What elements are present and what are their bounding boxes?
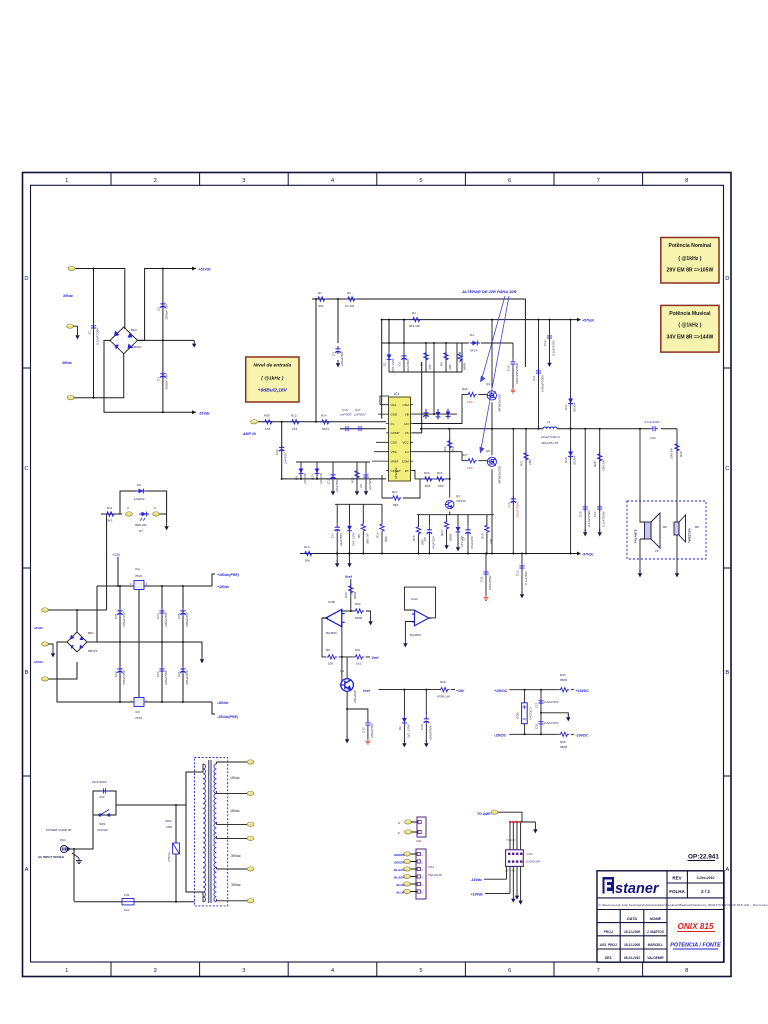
svg-text:6R8: 6R8 [384, 536, 388, 542]
svg-text:REV: REV [672, 876, 681, 881]
svg-text:18VAC: 18VAC [34, 626, 44, 630]
svg-text:C16: C16 [342, 408, 348, 412]
capacitor C9 [465, 527, 470, 535]
svg-text:560: 560 [393, 503, 398, 507]
wire bottom rail [74, 901, 195, 903]
svg-text:56K: 56K [305, 559, 310, 563]
svg-text:39Vac: 39Vac [62, 361, 72, 365]
svg-text:SK304: SK304 [573, 456, 577, 465]
capacitor C34 [650, 426, 658, 431]
svg-text:+51Vdc: +51Vdc [199, 268, 211, 272]
transformer core [209, 760, 211, 903]
svg-text:+18Vdc(PRE): +18Vdc(PRE) [217, 573, 240, 577]
svg-text:C9: C9 [462, 537, 466, 541]
svg-text:BA4560: BA4560 [410, 633, 421, 637]
svg-text:-18Vdc: -18Vdc [471, 878, 483, 882]
wire LED row [101, 491, 167, 523]
resistor R31 [339, 656, 371, 658]
svg-text:C15: C15 [327, 478, 331, 484]
svg-text:7 8 9 10: 7 8 9 10 [506, 839, 516, 842]
annotation arrow to R26 [482, 296, 505, 378]
wire terminal hook [73, 326, 78, 332]
logo staner [603, 877, 660, 897]
terminal 18VAC center [42, 642, 49, 646]
svg-text:440-105-170: 440-105-170 [541, 441, 558, 445]
svg-text:100uF/25V: 100uF/25V [185, 669, 189, 685]
svg-text:3-Dec-2010: 3-Dec-2010 [697, 876, 715, 880]
svg-text:-51Vdc: -51Vdc [199, 411, 211, 415]
resistor R35 [559, 732, 570, 736]
svg-text:R15: R15 [412, 535, 416, 541]
wire +18Vdc [485, 892, 510, 894]
svg-text:8: 8 [685, 178, 688, 184]
svg-text:RBT15: RBT15 [88, 649, 98, 653]
svg-text:R3: R3 [347, 291, 351, 295]
svg-text:DES.: DES. [605, 956, 613, 960]
svg-text:1nF/63V: 1nF/63V [284, 452, 288, 464]
op-amp IC4A [412, 610, 432, 626]
wire D14 D15 column [570, 320, 572, 554]
svg-text:VB: VB [405, 412, 409, 416]
terminal black1 [404, 867, 411, 871]
svg-text:CN3: CN3 [527, 852, 533, 856]
svg-text:1K8: 1K8 [265, 427, 271, 431]
wire cap columns [120, 586, 183, 702]
svg-text:0.68uF/250V: 0.68uF/250V [540, 374, 544, 392]
svg-text:R15: R15 [351, 477, 355, 483]
svg-text:D1: D1 [383, 362, 387, 366]
terminal 39Vac top [68, 266, 75, 270]
terminal bottom [67, 396, 74, 400]
terminal 18VAC a [42, 608, 49, 612]
wire top R1 R3 run [312, 299, 525, 422]
wire primary pins [195, 764, 204, 902]
svg-text:5: 5 [419, 178, 422, 184]
svg-text:R21: R21 [520, 460, 524, 466]
svg-text:0.22uF/50V: 0.22uF/50V [544, 721, 560, 725]
svg-text:10R: 10R [448, 364, 452, 370]
svg-text:Potência Musical: Potência Musical [669, 311, 711, 317]
svg-text:B: B [725, 670, 729, 676]
wire +57V rail A [382, 320, 577, 419]
svg-text:-57Vdc: -57Vdc [582, 553, 594, 557]
wire C1 vertical [93, 269, 95, 398]
svg-text:C33: C33 [362, 727, 366, 733]
svg-text:100nF/50V: 100nF/50V [370, 722, 374, 738]
ground R32 [368, 618, 372, 625]
plug PC1 [60, 845, 70, 852]
svg-text:R18: R18 [480, 533, 484, 539]
svg-text:D7: D7 [139, 529, 143, 533]
svg-text:0.1uF/250V: 0.1uF/250V [551, 339, 555, 356]
svg-text:1: 1 [65, 968, 68, 974]
transformer T1 dashed box [195, 758, 228, 906]
note box Potencia Nominal [661, 238, 719, 284]
svg-text:( @1kHz ): ( @1kHz ) [261, 376, 284, 382]
svg-text:1nF/50V: 1nF/50V [354, 413, 366, 417]
svg-text:10K: 10K [328, 662, 333, 666]
capacitor C32 [281, 422, 283, 479]
mosfet Q5 [487, 457, 497, 466]
resistor R20 [435, 477, 446, 481]
connector CN3 [506, 850, 524, 867]
ground drop b [349, 554, 351, 562]
svg-text:18-11-2008: 18-11-2008 [624, 930, 640, 934]
resistor R26 [466, 392, 477, 396]
svg-text:COMP: COMP [391, 431, 400, 435]
wire AMP IN chain [258, 421, 386, 423]
capacitor C13 [521, 554, 523, 594]
svg-text:GREEN: GREEN [394, 861, 406, 865]
wire output rail [557, 428, 677, 430]
svg-text:3: 3 [242, 178, 245, 184]
svg-text:680R: 680R [560, 678, 568, 682]
resistor R33 [439, 687, 450, 691]
capacitor C17 [356, 426, 364, 431]
svg-text:BA4560: BA4560 [326, 631, 337, 635]
svg-text:R16: R16 [376, 532, 380, 538]
svg-text:TIP31C: TIP31C [456, 499, 467, 503]
diode D4 [470, 341, 480, 346]
ground mid tap [541, 713, 568, 716]
wire DT row [413, 471, 449, 479]
node junctions [281, 298, 551, 555]
regulator IC3 [134, 698, 144, 707]
fuse FS1 [122, 899, 134, 905]
svg-text:+15VDC: +15VDC [494, 689, 508, 693]
wire top rail 18V [97, 574, 215, 586]
svg-text:1K-1W: 1K-1W [345, 304, 354, 308]
capacitor C21 [117, 608, 122, 616]
svg-text:1N4002: 1N4002 [134, 497, 145, 501]
resistor R30 [350, 579, 352, 612]
svg-text:R31: R31 [355, 648, 361, 652]
wire rail B right [413, 362, 543, 433]
border inner rect [31, 185, 724, 962]
svg-text:10R-5W: 10R-5W [670, 447, 674, 459]
svg-text:10A: 10A [124, 908, 129, 912]
wire CN3 bottom pins [507, 866, 521, 897]
svg-text:( @1kHz ): ( @1kHz ) [678, 256, 701, 262]
svg-text:680R: 680R [560, 745, 568, 749]
svg-text:2: 2 [154, 968, 157, 974]
capacitor C29 box loop [93, 791, 176, 815]
connector CN2 [416, 849, 426, 899]
terminal A [405, 820, 412, 824]
diode D6 [136, 489, 146, 494]
connector CN1 [417, 817, 426, 837]
resistor R21 [525, 429, 527, 554]
inductor L1 [543, 427, 557, 429]
svg-text:C: C [725, 466, 729, 472]
svg-text:2: 2 [154, 178, 157, 184]
terminal sec5 [247, 867, 254, 871]
svg-text:C2: C2 [157, 307, 161, 311]
svg-text:C28: C28 [535, 723, 539, 729]
svg-text:560-2W: 560-2W [365, 532, 369, 544]
capacitor C1 [91, 323, 96, 331]
svg-text:D9: D9 [295, 476, 299, 480]
svg-text:1nF/50V: 1nF/50V [340, 413, 352, 417]
node junctions [93, 268, 164, 414]
terminal K [153, 512, 160, 516]
svg-text:R32: R32 [355, 602, 361, 606]
svg-text:R35: R35 [560, 740, 566, 744]
capacitor C28 [538, 719, 543, 727]
svg-text:8: 8 [685, 968, 688, 974]
svg-text:560R: 560R [355, 616, 363, 620]
svg-text:LO: LO [405, 450, 410, 454]
ground IC4A [403, 640, 407, 647]
svg-text:+9dBu/2,18V: +9dBu/2,18V [258, 388, 288, 394]
svg-text:2 / 2: 2 / 2 [701, 889, 710, 894]
wire TO AMP to CN3 [498, 812, 535, 850]
svg-text:10R: 10R [467, 400, 473, 404]
capacitor C6b [335, 524, 340, 532]
svg-text:PROJ.: PROJ. [604, 930, 614, 934]
speaker TWEETER [674, 515, 686, 542]
svg-text:CA723CD: CA723CD [529, 707, 533, 720]
svg-text:Q5: Q5 [486, 449, 490, 453]
capacitor C19 [512, 429, 514, 554]
wire mid rail to ground [138, 339, 195, 341]
svg-text:PC1: PC1 [60, 838, 66, 842]
wire diode subrail [296, 462, 370, 488]
wire falante drop [639, 429, 641, 510]
wire feedback rail [282, 478, 386, 480]
column numbers top [24, 178, 729, 974]
diode D15 [568, 449, 573, 459]
svg-text:IRFB61N20D: IRFB61N20D [498, 465, 502, 484]
svg-text:39Vac: 39Vac [231, 854, 241, 858]
svg-text:5V1-1/2W: 5V1-1/2W [352, 531, 356, 546]
svg-text:Vref: Vref [372, 656, 380, 660]
speaker FALANTE [645, 513, 661, 548]
terminal sec2 [247, 791, 254, 795]
wire C2 C3 vertical [162, 269, 164, 413]
svg-text:HO: HO [404, 422, 409, 426]
svg-text:-15VDC: -15VDC [494, 734, 507, 738]
resistor R18 [485, 524, 489, 534]
wire secondary taps [216, 762, 247, 901]
svg-text:C30: C30 [507, 365, 511, 371]
svg-text:R26: R26 [462, 387, 468, 391]
node red pins [509, 821, 522, 823]
zener D3 [347, 523, 352, 533]
ground CN3 pin arrows [511, 895, 515, 902]
resistor R29 [676, 429, 678, 516]
ground R23 [444, 542, 448, 549]
node junctions [570, 319, 641, 555]
svg-text:C17: C17 [355, 408, 361, 412]
mosfet Q3 [487, 391, 497, 400]
capacitor C12 [549, 320, 551, 362]
svg-text:3K3: 3K3 [107, 519, 113, 523]
note box Potencia Musical [661, 305, 719, 352]
svg-text:7: 7 [597, 178, 600, 184]
wire HO gate [413, 320, 492, 429]
wire Vref rail [379, 689, 456, 691]
svg-text:ASS. PROJ.: ASS. PROJ. [599, 943, 618, 947]
ground PE [72, 853, 79, 858]
svg-text:680R: 680R [463, 362, 467, 370]
capacitor C27 [538, 698, 543, 706]
svg-text:C: C [24, 466, 28, 472]
capacitor C14 [597, 504, 602, 512]
wire IC4A feedback loop [404, 587, 435, 640]
svg-text:R29: R29 [679, 451, 683, 457]
svg-text:+18Vdc: +18Vdc [471, 892, 483, 896]
resistor R11 [105, 512, 116, 516]
svg-text:POTENCIA / FONTE: POTENCIA / FONTE [670, 943, 721, 949]
svg-text:+16V: +16V [456, 689, 465, 693]
svg-text:CSD: CSD [391, 441, 398, 445]
svg-text:+24V: +24V [112, 553, 121, 557]
capacitor C16 [343, 426, 351, 431]
svg-text:22uF/50V: 22uF/50V [406, 358, 410, 373]
terminal A [126, 512, 133, 516]
svg-text:R30: R30 [344, 592, 348, 598]
wire -51V rail [104, 340, 196, 412]
svg-text:C6: C6 [331, 534, 335, 538]
svg-text:D: D [725, 276, 729, 282]
svg-text:C26: C26 [177, 671, 181, 677]
svg-text:10R: 10R [467, 466, 473, 470]
svg-text:D15: D15 [564, 457, 568, 463]
capacitor C30 [512, 343, 514, 388]
terminal green2 [404, 859, 411, 863]
svg-text:0.22uF/250V: 0.22uF/250V [96, 327, 100, 345]
svg-text:C20: C20 [579, 511, 583, 517]
node junctions [73, 804, 177, 903]
svg-text:FOLHA: FOLHA [669, 889, 685, 894]
svg-text:C10: C10 [420, 724, 424, 730]
resistor R32 [341, 611, 371, 618]
diode D14 [568, 396, 573, 406]
svg-text:C31: C31 [480, 576, 484, 582]
svg-text:10R-1W: 10R-1W [602, 459, 606, 471]
wire rail B left [340, 428, 386, 430]
wire LO gate [413, 429, 492, 554]
wire bridge feeds [48, 586, 107, 702]
resistor R15b [416, 525, 420, 535]
svg-text:0.1uF/50V: 0.1uF/50V [524, 570, 528, 585]
resistor R3 [346, 297, 357, 301]
ground CN3 top [534, 822, 536, 827]
svg-text:VAA: VAA [391, 403, 397, 407]
svg-text:GREEN: GREEN [394, 853, 406, 857]
svg-text:100uF/50V: 100uF/50V [340, 350, 344, 366]
svg-text:1N4148: 1N4148 [303, 473, 307, 484]
svg-text:680R: 680R [449, 533, 453, 541]
svg-text:C12: C12 [543, 340, 547, 346]
svg-text:VCC: VCC [402, 441, 409, 445]
resistor R5 [361, 522, 365, 532]
svg-text:C3: C3 [157, 377, 161, 381]
terminal blue1 [404, 882, 411, 886]
capacitor C4 [335, 346, 340, 354]
terminal sec3 [247, 822, 254, 826]
svg-text:100nF/50V: 100nF/50V [164, 669, 168, 685]
svg-text:R22: R22 [443, 446, 447, 452]
wire VB bootstrap [413, 343, 457, 419]
regulator IC5 [522, 703, 528, 724]
svg-text:A: A [398, 821, 400, 825]
svg-text:OP:22.941: OP:22.941 [688, 854, 719, 861]
svg-text:BLACK: BLACK [394, 876, 405, 880]
svg-text:1: 1 [65, 178, 68, 184]
svg-text:680R: 680R [353, 591, 357, 599]
transistor Q4 [342, 657, 368, 738]
wire -57V rail C [300, 553, 577, 555]
resistor R08 [263, 420, 274, 424]
resistor R16 [380, 522, 384, 532]
svg-text:CN1: CN1 [416, 839, 422, 843]
svg-text:R17: R17 [392, 490, 398, 494]
column tick marks top/bottom [111, 173, 643, 977]
svg-text:VS: VS [405, 431, 409, 435]
svg-text:MARCELL: MARCELL [648, 943, 664, 947]
capacitor C24 [159, 666, 164, 674]
wire bottom cluster rail [335, 504, 494, 553]
svg-text:1N4148: 1N4148 [319, 473, 323, 484]
svg-text:C19: C19 [507, 502, 511, 508]
svg-text:SW1: SW1 [99, 822, 106, 826]
ground tweeter [675, 570, 679, 577]
svg-text:J27200-10P: J27200-10P [526, 860, 541, 864]
svg-text:BLUE: BLUE [396, 891, 405, 895]
resistor R1 [316, 297, 327, 301]
svg-text:R5: R5 [357, 534, 361, 538]
svg-text:10nF/250V/2KD: 10nF/250V/2KD [515, 362, 519, 384]
regulator IC2 [134, 581, 144, 590]
terminal 18VAC b [42, 677, 49, 681]
svg-text:3K3-2W: 3K3-2W [409, 324, 420, 328]
svg-text:FALANTE: FALANTE [634, 529, 638, 543]
svg-text:+16VDC: +16VDC [576, 689, 590, 693]
svg-text:C24: C24 [156, 671, 160, 677]
resistor R4 [411, 317, 422, 321]
svg-text:SW2: SW2 [165, 819, 172, 823]
svg-text:J. MARTOS: J. MARTOS [647, 930, 665, 934]
ground C18 [364, 488, 368, 495]
svg-text:D2: D2 [398, 726, 402, 730]
transistor Q1 [445, 500, 454, 508]
svg-text:R6: R6 [440, 362, 444, 366]
capacitor C10 [425, 690, 427, 742]
capacitor C29 [101, 788, 109, 793]
svg-text:FS1: FS1 [124, 893, 130, 897]
resistor R9 [327, 655, 338, 659]
svg-text:D14: D14 [564, 404, 568, 410]
svg-text:CSH: CSH [402, 403, 408, 407]
svg-text:4.7uF/100V: 4.7uF/100V [644, 420, 660, 424]
svg-text:R1: R1 [318, 291, 322, 295]
capacitor C15 [330, 472, 335, 480]
capacitor C8 [427, 527, 432, 535]
ground red C33 [365, 739, 370, 744]
svg-text:10R: 10R [438, 484, 444, 488]
svg-text:IC3: IC3 [135, 710, 140, 714]
wire R28 column [599, 429, 601, 532]
svg-text:L1: L1 [547, 420, 551, 424]
svg-text:150uF/250V: 150uF/250V [515, 501, 519, 518]
svg-text:470uF/25V: 470uF/25V [122, 611, 126, 627]
svg-text:29V EM 8R =>105W: 29V EM 8R =>105W [667, 268, 714, 274]
IC1 IRS2092 [389, 397, 411, 481]
svg-text:AC INPUT 50/60Hz: AC INPUT 50/60Hz [38, 855, 65, 859]
svg-text:R12: R12 [291, 414, 297, 418]
